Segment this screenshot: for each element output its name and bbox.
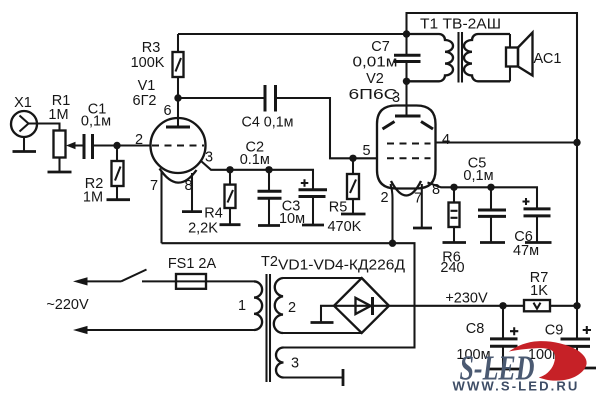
- svg-text:0,1м: 0,1м: [463, 168, 493, 184]
- node B+/T1/C7 top: [403, 30, 410, 37]
- svg-text:0,1м: 0,1м: [81, 114, 111, 130]
- wire V1 pin7 heater leg: [160, 171, 162, 243]
- transformer T1 secondary: [464, 34, 510, 81]
- svg-text:~220V: ~220V: [46, 297, 89, 313]
- wire V2 screen pin4: [436, 141, 578, 143]
- wire C1 to grid node: [93, 144, 118, 146]
- svg-text:100K: 100K: [131, 55, 165, 71]
- potentiometer R1 1M: [48, 93, 84, 158]
- mains arrow bottom: [73, 326, 88, 334]
- capacitor C6 47м electrolytic: [513, 198, 551, 259]
- svg-text:6П6С: 6П6С: [349, 87, 398, 103]
- capacitor C1 0,1м: [81, 102, 111, 160]
- svg-text:C4 0,1м: C4 0,1м: [242, 115, 294, 131]
- wire winding2 bottom to bridge: [283, 332, 362, 334]
- svg-text:240: 240: [440, 260, 464, 276]
- capacitor C8 100м electrolytic: [456, 306, 518, 363]
- svg-text:7: 7: [150, 178, 158, 194]
- capacitor C4 0,1м: [242, 85, 294, 131]
- svg-text:+230V: +230V: [445, 291, 488, 307]
- svg-text:Т2: Т2: [261, 254, 278, 270]
- svg-text:V2: V2: [366, 71, 384, 87]
- svg-text:470K: 470K: [327, 219, 361, 235]
- svg-text:2,2K: 2,2K: [188, 221, 218, 237]
- capacitor C9 100м electrolytic: [528, 306, 591, 363]
- transformer T2 winding 2: [274, 278, 283, 333]
- transformer T2 primary winding 1: [254, 281, 262, 330]
- svg-text:47м: 47м: [513, 243, 539, 259]
- svg-text:VD1-VD4-КД226Д: VD1-VD4-КД226Д: [278, 258, 405, 274]
- svg-text:FS1 2A: FS1 2A: [168, 256, 217, 272]
- svg-text:X1: X1: [14, 95, 32, 111]
- ground R6: [443, 227, 467, 243]
- resistor R2 1M: [83, 146, 124, 206]
- bridge rectifier VD1-VD4 КД226Д: [278, 258, 405, 334]
- ground R2: [107, 186, 131, 200]
- node C1/R2/grid: [113, 142, 120, 149]
- capacitor C5 0,1м: [463, 156, 506, 217]
- ground V2 pin7: [413, 184, 432, 228]
- node R7 right / C9: [573, 302, 580, 309]
- node R6 top: [450, 184, 457, 191]
- wire X1 to R1: [29, 124, 60, 131]
- mains arrow top: [73, 277, 88, 285]
- svg-text:0,01м: 0,01м: [353, 55, 398, 71]
- wire right rail down: [576, 143, 578, 306]
- svg-text:R3: R3: [142, 40, 161, 56]
- svg-text:5: 5: [362, 143, 370, 159]
- svg-text:4: 4: [442, 132, 450, 148]
- wire B+ over the top: [407, 13, 578, 143]
- svg-text:1M: 1M: [83, 190, 103, 206]
- node C2 top: [265, 166, 272, 173]
- svg-text:6Г2: 6Г2: [133, 93, 157, 109]
- wire node to C4: [178, 97, 265, 99]
- svg-text:2: 2: [380, 190, 388, 206]
- svg-text:Т1 ТВ-2АШ: Т1 ТВ-2АШ: [420, 17, 501, 33]
- resistor R3 100K: [131, 34, 184, 98]
- fuse FS1 2A: [168, 256, 217, 289]
- wire heater rail: [162, 243, 415, 347]
- transformer T2 core: [267, 274, 271, 382]
- resistor R5 470K: [327, 158, 361, 235]
- svg-text:C7: C7: [371, 39, 390, 55]
- node pin4 / right rail: [573, 139, 580, 146]
- svg-text:C8: C8: [466, 321, 485, 337]
- svg-text:2: 2: [288, 300, 296, 316]
- svg-text:R4: R4: [204, 206, 223, 222]
- svg-text:C9: C9: [545, 323, 564, 339]
- wire winding2 top to bridge: [283, 277, 362, 279]
- wire C4 to V2 grid: [276, 98, 378, 158]
- svg-text:3: 3: [392, 90, 400, 106]
- svg-text:V1: V1: [138, 78, 156, 94]
- resistor R7 1K: [524, 270, 550, 311]
- wire V1 plate pin3 to C3: [201, 161, 313, 190]
- resistor R6 240: [440, 187, 464, 276]
- wire R7 to right rail: [550, 305, 577, 307]
- speaker AC1: [506, 33, 561, 82]
- capacitor C2 0.1м: [240, 140, 282, 199]
- capacitor C3 10м electrolytic: [279, 179, 327, 227]
- ground C6: [525, 216, 552, 243]
- svg-text:2: 2: [135, 132, 143, 148]
- resistor R4 2,2K: [188, 170, 235, 237]
- svg-text:АС1: АС1: [534, 51, 562, 67]
- svg-text:WWW.S-LED.RU: WWW.S-LED.RU: [453, 380, 580, 394]
- svg-text:0.1м: 0.1м: [240, 152, 270, 168]
- node R3/C4/V1 anode: [174, 94, 181, 101]
- wire mains bottom: [86, 329, 254, 331]
- ground C8: [490, 346, 520, 369]
- terminal bar winding3: [342, 369, 345, 386]
- ground bridge minus: [311, 306, 335, 323]
- ground R5: [341, 199, 366, 214]
- ground C3: [302, 197, 324, 226]
- transformer T2 winding 3: [276, 348, 283, 378]
- ground C2: [258, 198, 280, 225]
- transformer T1 core: [459, 32, 463, 83]
- wire V2 pin2 heater leg: [391, 184, 393, 243]
- wire bridge plus to +230V: [389, 305, 524, 307]
- capacitor C7 0,01м: [353, 34, 421, 81]
- wire winding3 bottom terminal: [284, 376, 344, 378]
- transformer T1 primary: [407, 34, 454, 81]
- ground R4: [220, 208, 241, 225]
- svg-text:6: 6: [163, 103, 171, 119]
- svg-text:3: 3: [291, 356, 299, 372]
- svg-text:10м: 10м: [279, 211, 305, 227]
- node V2 pin2 on heater rail: [389, 240, 396, 247]
- ground V1 pin8: [182, 173, 202, 212]
- ground C5: [480, 216, 505, 242]
- svg-text:1K: 1K: [530, 283, 548, 299]
- wire V2 cathode pin8 to C5/C6: [428, 183, 538, 209]
- switch blade: [121, 270, 147, 282]
- node R5 top: [349, 155, 356, 162]
- svg-text:1M: 1M: [48, 107, 68, 123]
- wire mains top: [86, 280, 121, 282]
- ground X1: [13, 137, 37, 152]
- node R4 top: [226, 166, 233, 173]
- tube V1 6Г2: [133, 78, 214, 194]
- node C5 top: [487, 184, 494, 191]
- node C8 top: [499, 302, 506, 309]
- wire B+ rail top: [178, 33, 407, 35]
- svg-text:3: 3: [205, 150, 213, 166]
- ground R1: [48, 158, 72, 173]
- ground C9: [562, 346, 596, 368]
- node C7 bottom / V2 anode: [403, 78, 410, 85]
- wire node to V1 grid pin 2: [117, 144, 151, 146]
- tube V2 6П6С: [349, 71, 451, 207]
- svg-text:1: 1: [238, 298, 246, 314]
- connector X1: [11, 95, 37, 137]
- wire switch to T2 through fuse: [142, 280, 254, 282]
- logo swoosh: [509, 341, 587, 380]
